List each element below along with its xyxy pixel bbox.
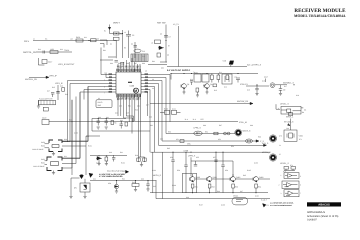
svg-text:C27: C27 <box>47 90 50 93</box>
svg-text:R63: R63 <box>235 186 238 189</box>
ground mixer3 <box>196 92 199 97</box>
svg-text:C102: C102 <box>96 162 100 165</box>
capacitor C420 <box>42 117 49 125</box>
svg-text:C121: C121 <box>172 108 176 111</box>
svg-text:Y400 45.1MHZ: Y400 45.1MHZ <box>32 148 43 151</box>
svg-text:M: M <box>134 89 137 93</box>
value labels scatter E <box>278 107 306 195</box>
svg-text:T1: T1 <box>193 71 195 74</box>
wire lower bus <box>90 154 127 156</box>
svg-text:1: 1 <box>281 174 282 177</box>
wire line 153 <box>151 151 271 153</box>
svg-text:C55: C55 <box>196 156 199 159</box>
capacitor C418 <box>56 92 60 94</box>
ground vr400b <box>83 197 86 199</box>
svg-text:Q463: Q463 <box>259 176 263 179</box>
resistor R424 <box>214 132 218 135</box>
capacitor C411 <box>236 78 240 83</box>
svg-text:R428: R428 <box>132 181 136 184</box>
svg-text:C45: C45 <box>153 185 156 188</box>
svg-text:R33: R33 <box>69 119 72 122</box>
svg-text:R7: R7 <box>168 45 170 48</box>
svg-text:R25: R25 <box>52 86 55 89</box>
capacitor C422 <box>105 119 108 126</box>
svg-text:ANTPOL_RX: ANTPOL_RX <box>23 51 37 54</box>
wire transistor joins <box>193 174 271 193</box>
capacitor C419 <box>51 93 54 98</box>
svg-text:Y460: Y460 <box>299 135 303 138</box>
ground cluster1 <box>97 127 100 129</box>
svg-text:R23: R23 <box>38 48 41 51</box>
svg-text:R81: R81 <box>103 49 106 52</box>
capacitor C407 <box>164 36 171 39</box>
titleblock ABACUS bar <box>307 202 341 206</box>
op-amp box U460B <box>279 181 300 189</box>
svg-text:C5: C5 <box>132 34 134 37</box>
jack J402 <box>269 154 276 161</box>
svg-text:LPF2_IF: LPF2_IF <box>49 75 57 78</box>
node SP_MIC_S label <box>284 121 294 126</box>
resistor R410 <box>211 74 214 83</box>
U100 left pin labels <box>109 74 113 93</box>
ground filter FL404 <box>52 171 55 175</box>
svg-text:C51: C51 <box>176 138 179 141</box>
svg-text:XTAL F1: XTAL F1 <box>240 83 249 86</box>
flag C_ALT <box>261 198 269 207</box>
inductor L405 <box>134 49 145 53</box>
svg-text:Y401 45.3MHZ: Y401 45.3MHZ <box>33 165 44 168</box>
wire RX5 <box>33 40 116 42</box>
svg-text:Q1: Q1 <box>187 83 189 86</box>
wire fan U100 top <box>118 58 140 69</box>
svg-text:5: 5 <box>300 175 301 178</box>
wire filter feed 2 <box>62 145 86 147</box>
svg-text:R71: R71 <box>299 138 302 141</box>
ground mixer1 <box>183 89 186 94</box>
capacitor C406 <box>134 46 138 48</box>
U100 right pin labels <box>145 74 149 93</box>
wire antsw vertical <box>165 25 167 63</box>
ground lpf <box>37 100 40 108</box>
svg-text:R36: R36 <box>135 109 138 112</box>
svg-text:C417: C417 <box>48 61 52 64</box>
svg-text:C53: C53 <box>218 138 221 141</box>
svg-text:R62: R62 <box>212 186 215 189</box>
svg-text:LEVEL_S: LEVEL_S <box>280 102 289 105</box>
resistor R413 <box>196 88 199 92</box>
note resistors text <box>270 202 294 207</box>
module box MOD1 <box>96 100 112 108</box>
capacitor C423 <box>120 122 123 129</box>
wire xtal <box>246 85 269 87</box>
resistor R414 <box>213 84 217 87</box>
transistor Q401 <box>181 83 189 89</box>
wire fan U100 bottom <box>118 94 140 157</box>
svg-text:LPF5_S: LPF5_S <box>194 127 202 130</box>
svg-text:R39: R39 <box>135 154 138 157</box>
U100 top pin labels <box>117 66 141 72</box>
U100 bottom pin labels <box>117 95 141 101</box>
ground bot2 <box>134 190 137 192</box>
ground filter FL403 <box>52 152 55 156</box>
ground bot1 <box>115 191 118 193</box>
wire LPF5 line <box>166 133 235 135</box>
capacitor C421 <box>97 119 100 126</box>
svg-text:4: 4 <box>278 107 279 110</box>
capacitor C442 <box>214 152 217 192</box>
wire mid drop pair <box>139 157 145 162</box>
svg-text:R15: R15 <box>214 89 217 92</box>
svg-text:(R): (R) <box>74 187 77 190</box>
svg-text:6: 6 <box>300 184 301 187</box>
svg-text:C110: C110 <box>255 195 259 198</box>
svg-text:3: 3 <box>104 79 105 82</box>
svg-text:U2: U2 <box>98 97 100 100</box>
svg-text:26: 26 <box>152 78 154 81</box>
wire to supply <box>148 62 167 65</box>
svg-text:R4: R4 <box>114 122 116 125</box>
wire bus 193 <box>150 192 268 194</box>
diode box VR400 <box>74 183 90 192</box>
svg-text:C42: C42 <box>93 178 96 181</box>
svg-text:C90: C90 <box>119 105 122 108</box>
transformer T402 <box>222 74 232 84</box>
svg-text:C106: C106 <box>254 162 258 165</box>
svg-text:R99: R99 <box>258 136 261 139</box>
svg-text:ALL RESISTORS ARE IN OHMS,: ALL RESISTORS ARE IN OHMS, <box>270 202 294 205</box>
transistor Q460 <box>190 176 200 182</box>
svg-text:1: 1 <box>104 72 105 75</box>
resistor R461 <box>191 184 197 189</box>
svg-text:C431: C431 <box>41 158 45 161</box>
svg-text:L9: L9 <box>151 42 153 45</box>
capacitor C401 <box>88 39 96 42</box>
svg-text:R52: R52 <box>205 131 208 134</box>
resistor R422 <box>125 122 128 126</box>
wire ANTPOL <box>36 51 72 53</box>
svg-text:J4: J4 <box>279 144 281 147</box>
svg-text:ANTPOL_RX: ANTPOL_RX <box>25 78 38 81</box>
svg-text:C40: C40 <box>109 151 112 154</box>
svg-text:R97: R97 <box>219 124 222 127</box>
relay K400 <box>232 195 248 205</box>
svg-text:LPF8_S: LPF8_S <box>188 154 196 157</box>
wire branch <box>129 40 136 58</box>
enclosure box bottom amp <box>161 152 163 198</box>
svg-text:C6: C6 <box>160 33 162 36</box>
wire filter feed 3 <box>62 93 80 159</box>
svg-text:C70: C70 <box>279 135 282 138</box>
svg-text:RX 5: RX 5 <box>24 40 30 43</box>
svg-text:R37: R37 <box>201 118 204 121</box>
svg-text:C57: C57 <box>213 156 216 159</box>
svg-text:ARPS19685A-N: ARPS19685A-N <box>307 211 325 214</box>
crystal Y460 box <box>284 130 303 141</box>
resistor R428 <box>132 181 139 190</box>
svg-text:R5: R5 <box>124 47 126 50</box>
ground cluster2 <box>105 127 108 129</box>
wire left riser <box>152 152 154 193</box>
svg-text:R431: R431 <box>41 162 45 165</box>
svg-text:TP401: TP401 <box>64 49 69 52</box>
svg-text:C88: C88 <box>142 62 145 65</box>
svg-text:R401: R401 <box>76 36 80 39</box>
svg-text:R87: R87 <box>134 62 137 65</box>
svg-text:VS_TX: VS_TX <box>173 23 179 26</box>
svg-text:Schematics (Sheet 11 of 25): Schematics (Sheet 11 of 25) <box>307 215 339 218</box>
capacitor C440 <box>171 152 174 193</box>
IF filter FL401 <box>131 54 148 62</box>
svg-text:C31: C31 <box>64 155 67 158</box>
capacitor C405 <box>126 31 134 41</box>
svg-text:C7: C7 <box>169 36 171 39</box>
svg-text:C8: C8 <box>167 54 169 57</box>
svg-text:C98: C98 <box>250 124 253 127</box>
svg-text:C18: C18 <box>262 80 265 83</box>
resistor R426 <box>137 158 146 161</box>
resistor R407 <box>157 53 161 57</box>
op-amp box U460C <box>281 190 300 197</box>
U100 bottom pins <box>118 94 140 97</box>
svg-text:R17: R17 <box>284 85 287 88</box>
svg-text:MECH_S: MECH_S <box>243 130 252 133</box>
wire ANTSW_RX <box>150 100 253 105</box>
svg-text:C84: C84 <box>110 62 113 65</box>
svg-text:P2: P2 <box>267 204 269 207</box>
svg-text:J1-4: J1-4 <box>185 118 188 121</box>
svg-text:3: 3 <box>281 192 282 195</box>
note text band <box>99 173 125 178</box>
wire y460 top <box>290 119 292 131</box>
resistor R406 <box>155 40 161 44</box>
svg-text:L402: L402 <box>50 48 54 51</box>
wire mixer rail <box>171 74 258 80</box>
blob E400 <box>80 175 84 179</box>
resistor R427 <box>105 155 108 161</box>
resistor R412 <box>226 75 229 80</box>
ground y401 <box>279 94 282 96</box>
svg-text:C22: C22 <box>60 48 63 51</box>
FL404 labels <box>33 158 47 168</box>
wire fan U100 right nested <box>144 75 170 153</box>
value labels scatter F <box>33 38 261 207</box>
svg-text:U100: U100 <box>130 84 135 87</box>
capacitor C443 <box>221 152 224 192</box>
wire fan U100 left nested <box>62 69 113 159</box>
svg-text:C96: C96 <box>203 124 206 127</box>
svg-text:Q462: Q462 <box>236 176 240 179</box>
svg-text:01/08/97: 01/08/97 <box>307 219 317 222</box>
svg-text:C38: C38 <box>149 116 152 119</box>
svg-text:SHLD: SHLD <box>98 101 103 104</box>
svg-text:C34: C34 <box>115 112 118 115</box>
wire line 147 <box>159 142 269 147</box>
svg-text:L13: L13 <box>234 76 237 79</box>
transistor Q462 <box>230 176 240 182</box>
note arrow <box>126 170 129 173</box>
jack J400 <box>235 129 251 136</box>
resistor R460 <box>284 167 296 171</box>
svg-text:XTAL_M: XTAL_M <box>239 121 247 124</box>
svg-text:R64: R64 <box>258 186 261 189</box>
oscillator Y401 <box>270 83 275 88</box>
blob E401 <box>89 173 93 177</box>
wire bottom rail <box>90 180 157 182</box>
resistor R419 <box>43 107 48 111</box>
svg-text:M1: M1 <box>304 109 306 112</box>
svg-text:C430: C430 <box>41 141 45 144</box>
ground middrop <box>140 162 143 167</box>
node J1 labels <box>185 118 204 121</box>
svg-text:0.7 VDC WHEN UNLOCKED: 0.7 VDC WHEN UNLOCKED <box>99 175 123 178</box>
svg-text:R95: R95 <box>167 147 170 150</box>
resistor R421 <box>111 121 116 125</box>
ground low2 <box>105 161 108 166</box>
capacitor C412 <box>190 81 193 86</box>
svg-text:C14: C14 <box>190 78 193 81</box>
wire antpol arrow <box>29 76 49 78</box>
oval filter FL405 <box>194 127 203 136</box>
capacitor C426 <box>146 181 149 190</box>
wire lpf8 branch <box>191 157 233 176</box>
node C417 stub <box>265 79 267 83</box>
resistor R411 <box>217 74 220 83</box>
wire corner top-left nest <box>100 40 116 69</box>
svg-text:J1-6: J1-6 <box>193 118 196 121</box>
svg-text:28: 28 <box>145 70 147 73</box>
svg-text:W1: W1 <box>45 38 48 41</box>
resistor R403 <box>114 32 123 36</box>
svg-text:VR401: VR401 <box>233 195 238 198</box>
capacitor C441 <box>184 152 187 193</box>
wire filter feed 4 <box>62 97 76 164</box>
svg-text:AUX_S: AUX_S <box>262 142 269 145</box>
capacitor C416 <box>255 85 258 96</box>
U100 right pins <box>141 75 144 93</box>
resistor R404 <box>114 37 120 40</box>
svg-text:J3: J3 <box>33 38 35 41</box>
filter FL402 ceramic <box>39 98 56 105</box>
transistor Q463 <box>253 176 263 182</box>
wire vr400 <box>71 178 85 196</box>
svg-text:R105: R105 <box>247 169 251 172</box>
svg-text:R107: R107 <box>199 204 203 207</box>
resistor R418 <box>62 88 65 92</box>
svg-text:LEVEL_S: LEVEL_S <box>280 162 289 165</box>
resistor R463 <box>232 184 238 189</box>
svg-text:24: 24 <box>152 87 154 90</box>
wire C_S line <box>162 140 265 143</box>
capacitor C415 <box>279 85 286 93</box>
value labels scatter D <box>47 85 156 189</box>
crystal filter FL404 <box>47 157 62 171</box>
oval filter FL406 <box>246 139 253 143</box>
svg-text:2ND: 2ND <box>98 104 102 107</box>
value labels scatter A <box>98 116 246 199</box>
wire bottom corner nest <box>124 116 134 122</box>
svg-text:SPKR_1: SPKR_1 <box>286 116 293 119</box>
transformer T401 <box>194 71 209 82</box>
wire meter in <box>276 104 280 109</box>
svg-text:Q461: Q461 <box>213 176 217 179</box>
resistor R464 <box>255 184 261 189</box>
svg-text:MODEL TRX4014A/CRX4004A: MODEL TRX4014A/CRX4004A <box>294 14 346 18</box>
U100 top pins <box>118 69 140 72</box>
svg-text:C_ALT: C_ALT <box>261 198 268 201</box>
resistor R402 <box>50 48 58 53</box>
svg-text:R430: R430 <box>41 145 45 148</box>
wire filter feed 5 <box>62 100 72 168</box>
amp box Q460 <box>183 173 197 192</box>
svg-text:C417: C417 <box>264 75 268 78</box>
svg-text:LPF1_IF: LPF1_IF <box>55 82 63 85</box>
svg-text:R11: R11 <box>219 71 222 74</box>
svg-text:C30: C30 <box>64 138 67 141</box>
value labels scatter B <box>190 71 299 97</box>
svg-text:L3: L3 <box>124 31 126 34</box>
capacitor C417 <box>42 60 52 64</box>
resistor R425 <box>180 140 184 143</box>
svg-text:VOL: VOL <box>187 143 191 146</box>
resistor R462 <box>208 184 214 189</box>
svg-text:SP_MIC_S: SP_MIC_S <box>284 121 294 124</box>
ground vr400 <box>69 197 72 199</box>
svg-text:C2: C2 <box>110 43 112 46</box>
wire VS_TX <box>173 23 179 67</box>
svg-text:C44: C44 <box>141 178 144 181</box>
op-amp U100 body <box>116 72 141 94</box>
wire left drop B <box>72 100 100 175</box>
svg-text:C67: C67 <box>240 190 243 193</box>
svg-text:C4: C4 <box>131 43 133 46</box>
svg-text:C56: C56 <box>170 156 173 159</box>
svg-text:2: 2 <box>279 184 280 187</box>
FL403 labels <box>32 141 49 151</box>
svg-text:ABACUS: ABACUS <box>318 204 330 207</box>
resistor R401 <box>76 36 83 42</box>
svg-text:C68: C68 <box>186 196 189 199</box>
svg-text:5: 5 <box>104 86 105 89</box>
diode CR401 polarity <box>108 25 110 34</box>
svg-text:CR4: CR4 <box>108 182 111 185</box>
svg-text:MECH_S: MECH_S <box>153 174 162 177</box>
svg-text:VBATT: VBATT <box>113 22 121 25</box>
svg-text:5.0 VOLTS DC SUPPLY: 5.0 VOLTS DC SUPPLY <box>167 69 191 72</box>
U100 left pins <box>113 75 116 93</box>
svg-text:C58: C58 <box>225 169 228 172</box>
svg-text:C12: C12 <box>224 86 227 89</box>
svg-text:R93: R93 <box>150 124 153 127</box>
wire y401 out <box>275 84 287 86</box>
wire xtal bus left <box>49 121 238 123</box>
svg-text:C83: C83 <box>161 67 164 70</box>
svg-text:ALT_4 TRPX_S: ALT_4 TRPX_S <box>247 63 262 66</box>
value labels scatter C <box>38 30 170 59</box>
capacitor C444 <box>194 161 197 166</box>
wire lpf output <box>38 58 44 65</box>
svg-text:VS9: VS9 <box>223 59 226 62</box>
svg-text:R50: R50 <box>168 131 171 134</box>
svg-text:Direct Drive Fail Voltage: Direct Drive Fail Voltage <box>107 169 125 172</box>
ground mixer2 <box>206 89 209 94</box>
svg-text:J5: J5 <box>279 153 281 156</box>
svg-text:R72: R72 <box>290 164 293 167</box>
svg-text:C19: C19 <box>296 94 299 97</box>
wire vbatt bus <box>110 30 123 58</box>
capacitor C424 <box>115 61 125 65</box>
wire bus 198.6 <box>156 181 270 199</box>
diode CR421 <box>114 181 118 192</box>
